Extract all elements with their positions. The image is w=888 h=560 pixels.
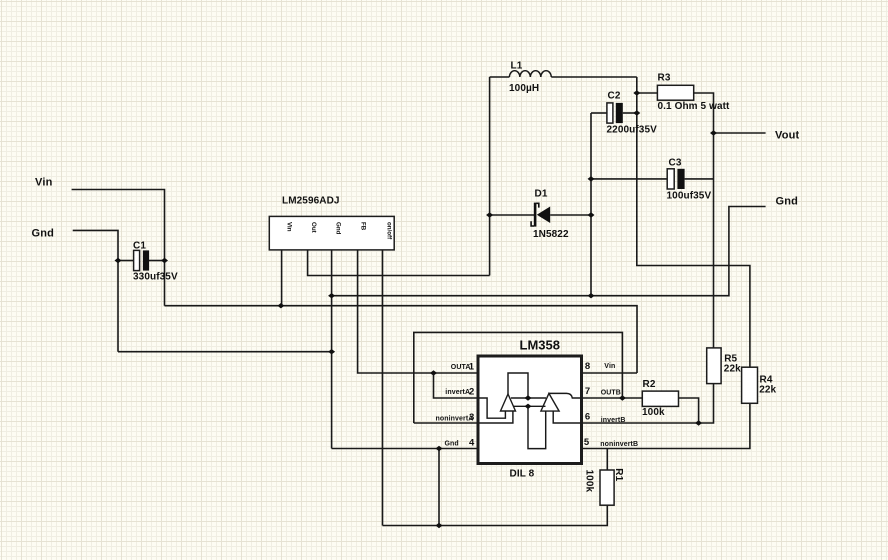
svg-text:Vin: Vin: [285, 222, 292, 232]
svg-text:1N5822: 1N5822: [533, 229, 569, 240]
svg-text:330uf35V: 330uf35V: [133, 272, 178, 283]
svg-text:Gnd: Gnd: [32, 228, 55, 240]
wire R2 right down to invertB row: [679, 398, 699, 423]
svg-text:7: 7: [585, 386, 590, 397]
node R3 left junction: [633, 90, 640, 95]
svg-text:D1: D1: [535, 189, 548, 200]
node D1 anode junction: [588, 212, 595, 217]
wire OUTA feedback down to invertA row: [434, 373, 482, 398]
wire op-amp A output loop to internal junctions: [508, 373, 528, 398]
wire LM2596 pin on/off down to bottom ground rail: [382, 244, 384, 526]
node Gnd input rail junction: [328, 349, 335, 354]
wire noninvertA stub: [414, 422, 482, 424]
svg-text:C1: C1: [133, 240, 146, 251]
wire LM2596 pin FB down and right to OUTA line: [358, 244, 482, 374]
wire C2 row right: [623, 112, 637, 114]
svg-text:5: 5: [584, 437, 590, 448]
wire Vin feed to LM2596 Vin pin and LM358 pin8 riser: [165, 306, 638, 373]
wire D1 right: [550, 214, 591, 216]
resistor R3: [657, 85, 693, 100]
wire output node vertical and branch to R4 top: [637, 77, 750, 367]
wire C3 row left from ground vertical: [591, 178, 667, 180]
node Vout junction: [710, 130, 717, 135]
svg-text:L1: L1: [511, 61, 523, 72]
svg-text:8: 8: [585, 361, 590, 372]
svg-text:FB: FB: [360, 222, 367, 231]
node C1 left junction: [115, 258, 122, 263]
svg-text:0.1 Ohm 5 watt: 0.1 Ohm 5 watt: [658, 101, 731, 112]
op-amp U2 LM358 DIL8 box: [478, 356, 582, 464]
diode D1 1N5822 schottky: [531, 203, 550, 227]
op-amp U1 LM2596ADJ module box: [269, 216, 394, 250]
wire L1 row: [490, 76, 637, 78]
svg-text:invertB: invertB: [601, 417, 626, 424]
wire C1 row left: [118, 260, 133, 262]
wire LM2596 pin Out: [308, 244, 490, 276]
wire LM358 pin8 stub: [582, 372, 638, 374]
node Vin pin junction: [277, 303, 284, 308]
node Gnd pin / ground rail junction: [328, 293, 335, 298]
wire C3 row right: [685, 178, 714, 180]
svg-text:LM358: LM358: [520, 338, 560, 353]
node internal junction upper: [525, 395, 532, 400]
wire internal drop from lower row to bottom link: [528, 406, 546, 448]
node C2 right junction: [633, 110, 640, 115]
inductor L1: [509, 71, 551, 77]
svg-text:1: 1: [469, 361, 475, 372]
svg-text:LM2596ADJ: LM2596ADJ: [282, 196, 340, 207]
svg-text:Vin: Vin: [35, 177, 53, 189]
svg-text:R3: R3: [658, 72, 671, 83]
svg-text:100k: 100k: [584, 470, 595, 493]
svg-text:invertA: invertA: [445, 389, 470, 396]
node ground rail mid junction: [588, 293, 595, 298]
node D1 cathode junction: [486, 212, 493, 217]
svg-text:4: 4: [469, 438, 475, 449]
node Vin input terminal wire: [72, 190, 165, 306]
svg-text:Gnd: Gnd: [335, 222, 342, 235]
op-amp B triangle inside LM358: [541, 393, 559, 411]
wire internal row upper between triangles: [511, 397, 546, 399]
capacitor C2: [607, 103, 613, 123]
svg-text:Gnd: Gnd: [445, 440, 459, 447]
svg-text:noninvertA: noninvertA: [436, 415, 474, 422]
wire internal row lower between triangles: [513, 405, 545, 407]
svg-text:Vout: Vout: [775, 130, 800, 142]
wire pin3 internal to op-amp A input: [479, 411, 513, 423]
wire C2 row left: [591, 112, 607, 114]
wire R3 right down to Vout node and R5 top: [694, 93, 714, 348]
svg-text:100µH: 100µH: [509, 83, 539, 94]
wire LM358 pin6 invertB row to R5 bottom: [582, 384, 714, 423]
svg-text:22k: 22k: [724, 363, 741, 374]
wire LM2596 pin Gnd down to LM358 pin4 row: [331, 244, 333, 449]
svg-text:R1: R1: [613, 468, 624, 481]
svg-text:3: 3: [469, 412, 474, 423]
svg-text:Vin: Vin: [604, 363, 615, 370]
node invertB junction: [695, 420, 702, 425]
svg-text:OUTB: OUTB: [601, 389, 621, 396]
wire LM358 pin5 noninvertB row to R4 bottom: [582, 403, 750, 448]
svg-text:DIL 8: DIL 8: [510, 468, 535, 479]
wire ground drop to bottom rail: [438, 449, 440, 526]
node C1 right junction: [161, 258, 168, 263]
svg-text:100k: 100k: [642, 407, 665, 418]
svg-text:C2: C2: [608, 91, 621, 102]
resistor R1: [600, 470, 614, 505]
wire C1 row right: [149, 260, 165, 262]
svg-text:on/off: on/off: [386, 222, 393, 240]
wire pin2 internal staircase to op-amp A input: [479, 398, 505, 418]
wire R3 left: [637, 92, 658, 94]
svg-text:2200uf35V: 2200uf35V: [607, 124, 658, 135]
wire bottom ground rail to R1 bottom: [383, 505, 608, 525]
node OUTB junction: [619, 395, 626, 400]
svg-text:R2: R2: [643, 379, 656, 390]
wire D1 left: [490, 214, 534, 216]
svg-text:22k: 22k: [759, 384, 776, 395]
svg-text:100uf35V: 100uf35V: [667, 191, 712, 202]
wire noninvertA loop over LM358 to OUTB junction: [414, 332, 623, 423]
wire switch node vertical L1-left to D1 and Out row: [489, 77, 491, 276]
node Gnd input terminal wire: [73, 230, 118, 351]
node internal junction lower: [525, 404, 532, 409]
node FB / OUTA junction: [430, 370, 437, 375]
svg-text:OUTA: OUTA: [451, 364, 471, 371]
wire LM2596 pin Vin: [281, 244, 283, 306]
resistor R4: [742, 367, 758, 403]
wire LM358 pin7 stub to R2: [582, 397, 643, 399]
node C3 left / ground junction: [588, 176, 595, 181]
capacitor C3: [667, 169, 674, 189]
svg-text:2: 2: [469, 386, 474, 397]
wire ground rail to Gnd output terminal: [332, 207, 766, 296]
wire Vout terminal: [714, 132, 766, 134]
resistor R5: [707, 348, 721, 384]
wire op-amp B right input to pin6: [553, 411, 581, 423]
svg-text:C3: C3: [669, 158, 682, 169]
resistor R2: [642, 391, 678, 406]
wire op-amp B output to pin7: [549, 393, 582, 398]
svg-text:noninvertB: noninvertB: [600, 441, 638, 448]
op-amp A triangle inside LM358: [501, 394, 516, 411]
wire LM358 pin4 Gnd row: [332, 448, 482, 450]
node bottom rail junction: [436, 523, 443, 528]
wire Gnd input rail to LM2596 Gnd pin column: [118, 351, 332, 353]
svg-text:6: 6: [585, 412, 590, 423]
svg-text:Out: Out: [310, 222, 317, 233]
wire C2 left plate down to D1 anode and ground rail: [590, 113, 592, 296]
wire R1 riser from pin5 row: [606, 449, 608, 471]
capacitor C1: [134, 250, 140, 270]
node pin4 row junction: [436, 446, 443, 451]
svg-text:Gnd: Gnd: [776, 195, 799, 207]
